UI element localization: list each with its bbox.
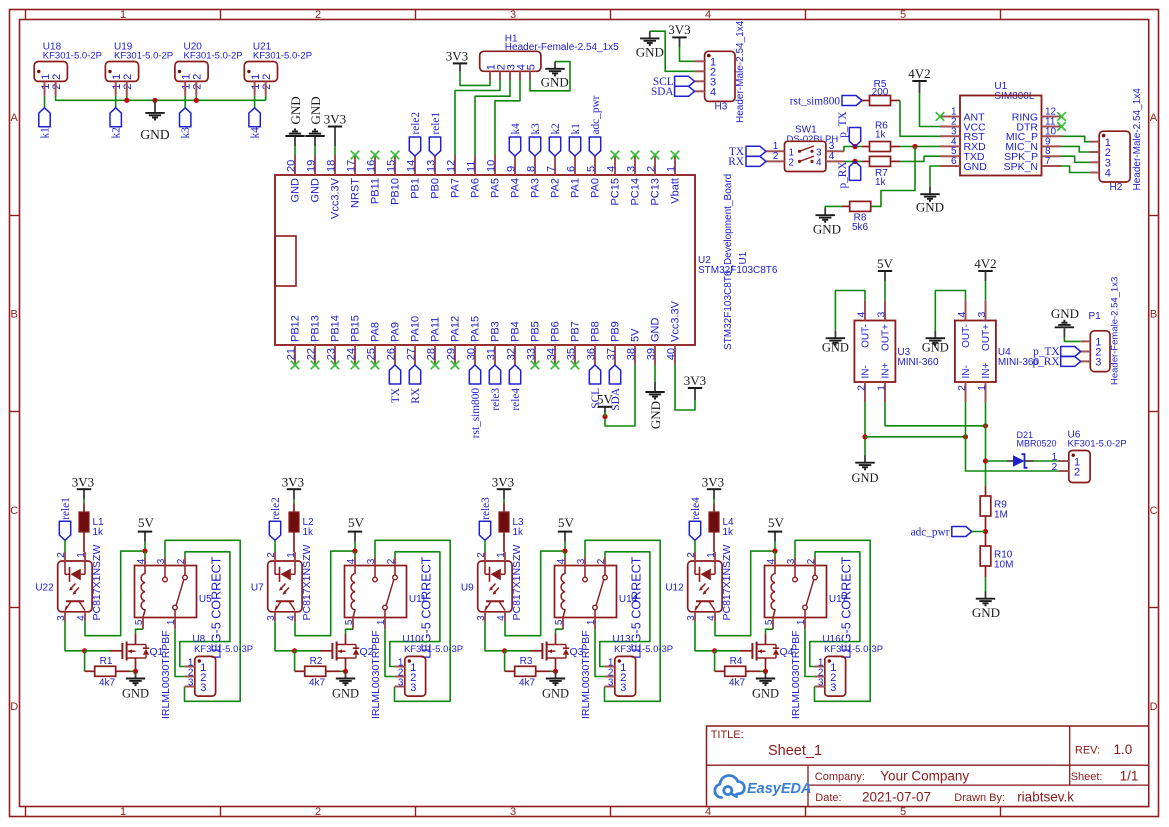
ground xyxy=(645,382,664,429)
power flag 3V3 xyxy=(324,111,346,155)
ground xyxy=(285,96,304,155)
no-connect X xyxy=(551,361,560,370)
svg-text:10M: 10M xyxy=(994,559,1013,570)
ground xyxy=(140,100,169,142)
svg-text:adc_pwr: adc_pwr xyxy=(911,526,950,538)
wire xyxy=(354,542,356,552)
svg-text:1k: 1k xyxy=(303,527,315,538)
svg-text:Sheet:: Sheet: xyxy=(1071,771,1103,783)
svg-text:R3: R3 xyxy=(520,656,533,667)
svg-text:1: 1 xyxy=(496,552,507,558)
wire xyxy=(844,160,862,162)
junction xyxy=(343,669,348,674)
svg-text:A: A xyxy=(11,112,19,124)
svg-text:2021-07-07: 2021-07-07 xyxy=(862,790,931,805)
svg-text:3: 3 xyxy=(398,677,404,688)
svg-text:34: 34 xyxy=(546,348,558,360)
junction xyxy=(502,648,507,653)
wire xyxy=(375,540,450,701)
wire xyxy=(85,551,145,636)
svg-text:PC13: PC13 xyxy=(650,178,662,206)
net flag rele1 xyxy=(59,497,72,540)
wire xyxy=(144,542,146,552)
svg-text:GND: GND xyxy=(922,341,949,355)
net flag k2 xyxy=(549,123,562,156)
wire xyxy=(294,651,296,672)
wire xyxy=(760,670,766,672)
power flag 3V3 xyxy=(668,22,690,47)
junction xyxy=(194,98,199,103)
svg-text:3: 3 xyxy=(476,615,487,621)
svg-text:3: 3 xyxy=(608,677,614,688)
optocoupler U22 (PC817X1NSZW) xyxy=(35,545,103,622)
net flag rele3 xyxy=(489,365,502,411)
svg-text:33: 33 xyxy=(526,348,538,360)
net flag rele2 xyxy=(409,112,422,156)
svg-text:5: 5 xyxy=(586,166,598,172)
svg-text:MBR0520: MBR0520 xyxy=(1017,439,1057,449)
svg-text:PB1: PB1 xyxy=(410,178,422,199)
svg-text:1k: 1k xyxy=(875,129,887,140)
svg-text:2: 2 xyxy=(789,157,795,168)
inductor L2 (1k) xyxy=(289,504,314,553)
svg-text:4: 4 xyxy=(706,615,717,621)
svg-text:8: 8 xyxy=(526,166,538,172)
svg-text:GND: GND xyxy=(308,96,323,124)
svg-text:5V: 5V xyxy=(348,515,365,530)
svg-text:20: 20 xyxy=(286,160,298,172)
svg-text:2: 2 xyxy=(266,552,277,558)
inductor L3 (1k) xyxy=(499,504,524,553)
svg-text:U12: U12 xyxy=(665,582,684,593)
svg-text:U9: U9 xyxy=(461,582,474,593)
svg-text:p_TX: p_TX xyxy=(837,111,849,137)
svg-text:3: 3 xyxy=(830,682,836,694)
svg-text:PC14: PC14 xyxy=(630,178,642,206)
junction xyxy=(82,648,87,653)
junction xyxy=(852,159,857,164)
svg-text:15: 15 xyxy=(386,160,398,172)
net flag p_RX xyxy=(1033,356,1081,368)
junction xyxy=(912,144,917,149)
connector U16 (KF301-5.0-3P) xyxy=(815,634,883,696)
svg-text:PA10: PA10 xyxy=(410,316,422,342)
svg-text:PB9: PB9 xyxy=(610,321,622,342)
net flag k1 xyxy=(39,108,52,139)
svg-text:200: 200 xyxy=(872,87,889,98)
net flag rele4 xyxy=(509,365,522,411)
svg-text:4: 4 xyxy=(556,558,567,564)
net flag RX xyxy=(728,156,766,168)
resistor R7 (1k) xyxy=(862,156,900,188)
svg-text:k3: k3 xyxy=(530,123,542,135)
EasyEDA logo xyxy=(715,776,812,798)
svg-text:4: 4 xyxy=(705,806,711,818)
svg-text:3: 3 xyxy=(510,9,516,21)
svg-text:5V: 5V xyxy=(558,515,575,530)
svg-text:OUT+: OUT+ xyxy=(880,324,891,351)
no-connect X xyxy=(431,361,440,370)
svg-text:rele1: rele1 xyxy=(430,112,442,135)
power flag 3V3 xyxy=(684,373,706,400)
resistor R4 (4k7) xyxy=(715,656,760,688)
svg-text:k1: k1 xyxy=(570,123,582,134)
svg-text:2: 2 xyxy=(806,558,817,564)
optocoupler U12 (PC817X1NSZW) xyxy=(665,545,733,622)
connector P1 (Header-Female-2.54 1x3) xyxy=(1081,277,1121,385)
ground xyxy=(332,671,359,700)
transistor Q1 (IRLML0030TRPbF) xyxy=(110,630,172,719)
svg-text:3: 3 xyxy=(818,677,824,688)
svg-text:4: 4 xyxy=(346,558,357,564)
svg-text:3: 3 xyxy=(156,558,167,564)
power flag 5V xyxy=(558,515,575,541)
svg-text:1: 1 xyxy=(166,619,177,625)
wire xyxy=(275,622,295,651)
svg-text:2: 2 xyxy=(122,84,134,90)
svg-text:5: 5 xyxy=(900,806,906,818)
svg-text:2: 2 xyxy=(122,74,134,80)
no-connect X xyxy=(1057,122,1066,131)
svg-text:12: 12 xyxy=(446,160,458,172)
ground xyxy=(972,592,1000,620)
svg-text:k4: k4 xyxy=(250,127,262,139)
svg-text:38: 38 xyxy=(626,348,638,360)
no-connect X xyxy=(331,361,340,370)
svg-text:KF301-5.0-3P: KF301-5.0-3P xyxy=(194,644,253,655)
IC U1 (SIM800L) xyxy=(940,81,1062,176)
svg-text:3V3: 3V3 xyxy=(446,48,468,63)
svg-text:GND: GND xyxy=(964,161,988,173)
svg-text:1k: 1k xyxy=(513,527,525,538)
svg-text:1: 1 xyxy=(120,806,126,818)
svg-text:3: 3 xyxy=(620,682,626,694)
power flag 5V xyxy=(138,515,155,541)
svg-text:PA3: PA3 xyxy=(530,178,542,198)
svg-text:U1: U1 xyxy=(738,251,749,264)
junction xyxy=(983,458,988,463)
wire xyxy=(115,96,117,108)
U2 top pins (20..1) with numbers and names xyxy=(286,155,682,219)
wire xyxy=(1034,460,1059,462)
svg-text:9: 9 xyxy=(506,166,518,172)
svg-text:KF301-5.0-3P: KF301-5.0-3P xyxy=(824,644,883,655)
net flag rele2 xyxy=(269,497,282,540)
wire xyxy=(354,551,356,557)
svg-text:2: 2 xyxy=(192,74,204,80)
junction xyxy=(553,669,558,674)
resistor R8 (5k6) xyxy=(842,201,871,233)
svg-text:1: 1 xyxy=(796,619,807,625)
module U3 (MINI-360) xyxy=(854,300,939,402)
svg-text:U22: U22 xyxy=(35,582,54,593)
svg-text:SDA: SDA xyxy=(651,86,674,98)
net flag p_RX xyxy=(837,161,861,188)
wire xyxy=(985,281,987,300)
svg-text:2: 2 xyxy=(51,84,63,90)
svg-text:4: 4 xyxy=(76,615,87,621)
no-connect X xyxy=(571,361,580,370)
junction xyxy=(142,549,147,554)
svg-text:PB8: PB8 xyxy=(590,321,602,342)
svg-text:5V: 5V xyxy=(768,515,785,530)
net flag SDA xyxy=(651,86,695,98)
svg-text:1: 1 xyxy=(376,619,387,625)
no-connect X xyxy=(351,151,360,160)
power flag 5V xyxy=(768,515,785,541)
svg-text:KF301-5.0-2P: KF301-5.0-2P xyxy=(114,51,173,62)
wire xyxy=(564,551,566,557)
svg-text:P1: P1 xyxy=(1089,311,1102,322)
junction xyxy=(133,669,138,674)
svg-text:p_RX: p_RX xyxy=(1033,356,1060,368)
svg-text:KF301-5.0-3P: KF301-5.0-3P xyxy=(614,644,673,655)
svg-text:3V3: 3V3 xyxy=(282,474,304,489)
svg-text:PA8: PA8 xyxy=(370,322,382,342)
svg-text:PA0: PA0 xyxy=(590,178,602,198)
svg-text:17: 17 xyxy=(346,160,358,172)
power flag 5V xyxy=(597,392,614,417)
wire xyxy=(293,499,295,503)
ground xyxy=(922,331,949,355)
wire xyxy=(715,551,775,636)
ground xyxy=(851,456,878,485)
svg-text:PC817X1NSZW: PC817X1NSZW xyxy=(91,545,103,621)
svg-text:PB11: PB11 xyxy=(370,178,382,204)
junction xyxy=(562,549,567,554)
svg-text:Vcc3.3V: Vcc3.3V xyxy=(330,177,342,219)
resistor R5 (200) xyxy=(862,79,900,106)
junction xyxy=(712,648,717,653)
svg-text:2: 2 xyxy=(176,558,187,564)
svg-text:Sheet_1: Sheet_1 xyxy=(768,743,822,759)
svg-text:KF301-5.0-2P: KF301-5.0-2P xyxy=(253,51,312,62)
svg-text:Date:: Date: xyxy=(815,792,841,804)
svg-text:riabtsev.k: riabtsev.k xyxy=(1017,790,1074,805)
svg-text:13: 13 xyxy=(426,160,438,172)
svg-text:KF301-5.0-2P: KF301-5.0-2P xyxy=(184,51,243,62)
wire xyxy=(766,629,774,634)
wire xyxy=(44,96,46,108)
wire xyxy=(864,402,866,456)
wire xyxy=(844,147,862,152)
svg-text:1: 1 xyxy=(666,166,678,172)
relay U17 (LEG-5) xyxy=(764,556,854,658)
svg-text:3V3: 3V3 xyxy=(324,111,346,126)
junction xyxy=(983,423,988,428)
wire xyxy=(680,47,695,61)
svg-text:2: 2 xyxy=(261,74,273,80)
diode D21 (MBR0520) xyxy=(1007,430,1057,468)
IC U2 (STM32F103C8T6 Development Board) xyxy=(275,174,778,350)
connector U6 (KF301-5.0-2P) xyxy=(1052,429,1127,482)
svg-text:3V3: 3V3 xyxy=(702,474,724,489)
svg-text:4: 4 xyxy=(956,312,968,318)
svg-text:5: 5 xyxy=(344,619,355,625)
connector H1 (Header-Female-2.54_1x5) xyxy=(480,34,619,81)
svg-text:PC817X1NSZW: PC817X1NSZW xyxy=(301,545,313,621)
svg-text:rele3: rele3 xyxy=(490,388,502,411)
connector U13 (KF301-5.0-3P) xyxy=(605,634,673,696)
svg-text:rele1: rele1 xyxy=(60,497,72,520)
wire xyxy=(715,650,740,652)
svg-text:GND: GND xyxy=(648,401,663,429)
svg-text:2: 2 xyxy=(596,558,607,564)
svg-text:4: 4 xyxy=(606,166,618,172)
svg-text:Header-Male-2.54_1x4: Header-Male-2.54_1x4 xyxy=(735,20,746,123)
connector H2 (Header-Male-2.54_1x4) xyxy=(1090,88,1143,193)
svg-text:IN+: IN+ xyxy=(880,363,891,379)
svg-text:2: 2 xyxy=(686,552,697,558)
svg-text:SPK_N: SPK_N xyxy=(1004,161,1038,173)
svg-text:4k7: 4k7 xyxy=(519,677,536,688)
svg-text:3: 3 xyxy=(976,312,988,318)
svg-text:PC817X1NSZW: PC817X1NSZW xyxy=(511,545,523,621)
svg-text:1k: 1k xyxy=(723,527,735,538)
svg-text:3: 3 xyxy=(410,682,416,694)
svg-text:18: 18 xyxy=(326,160,338,172)
svg-text:1: 1 xyxy=(976,385,988,391)
svg-text:2: 2 xyxy=(56,552,67,558)
svg-text:PB6: PB6 xyxy=(550,321,562,342)
svg-text:1: 1 xyxy=(120,9,126,21)
svg-text:4: 4 xyxy=(1105,168,1111,180)
ground xyxy=(541,62,569,90)
svg-text:2: 2 xyxy=(1052,462,1058,473)
svg-text:37: 37 xyxy=(606,348,618,360)
svg-text:1: 1 xyxy=(286,552,297,558)
wire xyxy=(56,96,266,101)
wire xyxy=(165,540,240,701)
wire xyxy=(774,542,776,552)
svg-text:3V3: 3V3 xyxy=(668,22,690,37)
svg-text:k3: k3 xyxy=(180,127,192,139)
svg-text:rele2: rele2 xyxy=(410,112,422,135)
svg-text:3: 3 xyxy=(188,677,194,688)
wire xyxy=(564,542,566,552)
svg-text:PA15: PA15 xyxy=(470,316,482,342)
svg-text:rele2: rele2 xyxy=(270,497,282,520)
wire xyxy=(175,629,185,676)
resistor R10 (10M) xyxy=(980,532,1013,578)
svg-text:rele3: rele3 xyxy=(480,497,492,520)
wire xyxy=(274,540,276,552)
svg-text:2: 2 xyxy=(315,9,321,21)
wire xyxy=(713,499,715,503)
junction xyxy=(983,529,988,534)
junction xyxy=(963,434,968,439)
wire xyxy=(295,551,355,636)
wire xyxy=(184,96,186,108)
junction xyxy=(602,414,607,419)
ground xyxy=(916,187,944,215)
resistor R1 (4k7) xyxy=(85,656,130,688)
svg-text:Your Company: Your Company xyxy=(880,769,969,784)
svg-text:RX: RX xyxy=(728,156,744,168)
resistor R9 (1M) xyxy=(980,486,1008,532)
svg-text:p_RX: p_RX xyxy=(837,162,849,189)
wire xyxy=(65,622,85,651)
net flag adc_pwr xyxy=(911,526,986,538)
transistor Q3 (IRLML0030TRPbF) xyxy=(530,630,592,719)
svg-text:rst_sim800: rst_sim800 xyxy=(470,388,482,439)
svg-text:D: D xyxy=(1150,701,1158,713)
relay U11 (LEG-5) xyxy=(344,556,434,658)
wire xyxy=(795,540,870,701)
svg-text:4: 4 xyxy=(766,558,777,564)
svg-text:Header-Male-2.54_1x4: Header-Male-2.54_1x4 xyxy=(1132,88,1143,191)
relay U14 (LEG-5) xyxy=(554,556,644,658)
svg-text:2: 2 xyxy=(646,166,658,172)
svg-text:3: 3 xyxy=(200,682,206,694)
wire xyxy=(900,156,940,161)
svg-text:5: 5 xyxy=(900,9,906,21)
wire xyxy=(484,540,486,552)
svg-text:4: 4 xyxy=(856,312,868,318)
wire xyxy=(966,402,1060,471)
no-connect X xyxy=(371,151,380,160)
resistor R2 (4k7) xyxy=(295,656,340,688)
svg-text:4V2: 4V2 xyxy=(908,66,930,81)
svg-text:Vbatt: Vbatt xyxy=(670,178,682,204)
svg-text:R2: R2 xyxy=(310,656,323,667)
optocoupler U7 (PC817X1NSZW) xyxy=(251,545,313,622)
svg-text:3: 3 xyxy=(366,558,377,564)
ground xyxy=(1051,306,1079,337)
svg-text:U7: U7 xyxy=(251,582,264,593)
svg-text:RX: RX xyxy=(410,388,422,404)
wire xyxy=(530,62,570,91)
svg-text:7: 7 xyxy=(546,166,558,172)
junction xyxy=(862,434,867,439)
svg-text:IN-: IN- xyxy=(860,365,871,378)
svg-text:PA5: PA5 xyxy=(490,178,502,198)
svg-text:1: 1 xyxy=(586,619,597,625)
svg-text:PB7: PB7 xyxy=(570,321,582,342)
net flag TX xyxy=(389,365,402,403)
svg-text:PB12: PB12 xyxy=(290,315,302,342)
svg-text:GND: GND xyxy=(752,686,779,700)
junction xyxy=(763,669,768,674)
net flag k3 xyxy=(180,108,193,139)
net flag k1 xyxy=(569,123,582,156)
svg-text:PB10: PB10 xyxy=(390,178,402,205)
svg-text:PB15: PB15 xyxy=(350,315,362,342)
wire xyxy=(871,147,915,207)
svg-text:2: 2 xyxy=(856,385,868,391)
wire xyxy=(986,460,1008,462)
svg-text:30: 30 xyxy=(466,348,478,360)
no-connect X xyxy=(311,361,320,370)
no-connect X xyxy=(651,151,660,160)
wire xyxy=(475,80,510,155)
wire xyxy=(390,552,440,667)
svg-text:1k: 1k xyxy=(93,527,105,538)
svg-text:3: 3 xyxy=(576,558,587,564)
wire xyxy=(985,402,987,486)
svg-text:k4: k4 xyxy=(510,123,522,135)
svg-text:EasyEDA: EasyEDA xyxy=(747,781,811,797)
wire xyxy=(295,650,320,652)
wire xyxy=(900,145,940,147)
net flag rele1 xyxy=(429,112,442,156)
no-connect X xyxy=(391,151,400,160)
svg-text:16: 16 xyxy=(366,160,378,172)
svg-text:rele4: rele4 xyxy=(690,497,702,520)
net flag k3 xyxy=(529,123,542,156)
svg-text:H3: H3 xyxy=(715,102,728,113)
optocoupler U9 (PC817X1NSZW) xyxy=(461,545,523,622)
